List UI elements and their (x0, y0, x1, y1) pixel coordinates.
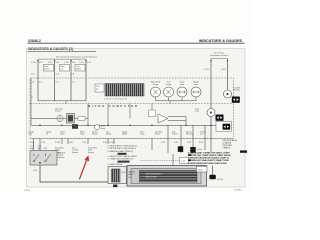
wire size labels top band (31, 62, 227, 76)
bracket right (211, 58, 228, 60)
svg-text:CHARTS: CHARTS (223, 146, 231, 149)
micro computer dashed line (30, 103, 234, 105)
switch label (58, 151, 66, 159)
svg-text:22846-2: 22846-2 (234, 189, 243, 191)
svg-text:Sensor: Sensor (55, 110, 61, 113)
IC block small (95, 84, 104, 92)
meter box bottom dashed (30, 138, 234, 140)
wire W7 right (227, 59, 229, 90)
switch feed labels (30, 146, 48, 151)
section title underline (28, 50, 97, 52)
notes list (108, 145, 138, 166)
svg-text:22846 CONN: 22846 CONN (145, 177, 157, 179)
svg-text:(SRS): (SRS) (122, 134, 127, 136)
connector box C305 (197, 166, 208, 172)
wire W4 (85, 59, 87, 100)
IC block hatched B (122, 84, 144, 97)
schematic frame (27, 49, 245, 187)
ground wire (209, 166, 223, 181)
connector box K3 (75, 65, 85, 72)
door lamp circle (207, 109, 215, 117)
svg-text:Switch: Switch (155, 133, 160, 136)
connector block CA (108, 167, 127, 188)
svg-text:C SENSOR GROUND DIST 22846-3 C: C SENSOR GROUND DIST 22846-3 CHART 22 (188, 157, 229, 160)
connector badge D1 (232, 97, 240, 103)
wire W6 lower (210, 117, 212, 139)
svg-text:0.5L: 0.5L (72, 82, 76, 84)
svg-text:E LAMP DRIVER UNIT 22846 CHART: E LAMP DRIVER UNIT 22846 CHART 22846 (188, 162, 226, 165)
internal bus wire (31, 125, 232, 126)
svg-text:Lamp: Lamp (195, 111, 200, 113)
sensor S2 (94, 125, 105, 130)
svg-text:Lamp: Lamp (140, 134, 145, 136)
wire W6 right (210, 59, 212, 108)
svg-text:Signal: Signal (106, 134, 112, 136)
svg-text:Sensor: Sensor (92, 134, 98, 136)
dashed link above CB (140, 154, 189, 166)
svg-text:meter: meter (60, 133, 65, 136)
legend text block upper (223, 139, 238, 150)
diode D3 (178, 146, 183, 152)
legend rows (188, 150, 247, 164)
svg-text:1.25L: 1.25L (64, 62, 70, 64)
svg-text:A GAUGE ASSY CONNECTOR 22846-1: A GAUGE ASSY CONNECTOR 22846-1 CHART (188, 151, 230, 154)
svg-text:1.25L: 1.25L (48, 62, 54, 64)
red arrow (79, 155, 89, 179)
svg-text:GAUGE ASSEMBLY: GAUGE ASSEMBLY (145, 172, 163, 175)
svg-text:4: SENSOR UNIT GAUGE CHART: 4: SENSOR UNIT GAUGE CHART (108, 155, 138, 158)
svg-text:1.25B: 1.25B (55, 142, 61, 144)
svg-text:1.25B: 1.25B (29, 142, 35, 144)
seat belt lamp label (233, 86, 241, 91)
wire W1 (37, 59, 39, 100)
connector box K1 (44, 65, 54, 72)
resistor R1 (78, 117, 85, 120)
band labels left (32, 82, 76, 99)
svg-text:INDICATORS & GAUGES (3): INDICATORS & GAUGES (3) (28, 47, 73, 51)
combination meter dashed box (30, 78, 234, 139)
svg-text:System: System (88, 151, 94, 154)
diode D4 (190, 147, 202, 153)
wire ground run (33, 165, 127, 182)
seat belt switch SW1 (30, 151, 57, 166)
svg-text:Warning: Warning (233, 90, 240, 92)
svg-text:See Schematic (Powertrain Cont: See Schematic (Powertrain Control System… (56, 55, 97, 58)
resistor R2 (149, 110, 155, 117)
sensor S1 (57, 116, 63, 122)
svg-text:MICRO COMPUTER: MICRO COMPUTER (88, 104, 139, 108)
svg-text:GAUGE: GAUGE (128, 171, 135, 174)
door lamp label (195, 108, 200, 112)
note right: power source (210, 52, 228, 58)
svg-text:Distribution System: Distribution System (210, 54, 228, 57)
stub wires below meter (34, 125, 212, 153)
svg-text:Gauge: Gauge (153, 84, 158, 86)
gauge G1 (151, 87, 161, 97)
svg-text:22846: 22846 (24, 190, 31, 192)
boxed badge X3 (216, 122, 232, 132)
gauge labels row (151, 81, 199, 86)
svg-text:Temp: Temp (101, 128, 105, 130)
svg-text:1.25L: 1.25L (79, 62, 85, 64)
left bus wire (38, 101, 86, 104)
svg-text:22846-2: 22846-2 (28, 39, 41, 43)
svg-text:B METER UNIT CHART 22846-2 CHA: B METER UNIT CHART 22846-2 CHART GAUGE (188, 154, 231, 157)
svg-text:0.5L: 0.5L (56, 82, 60, 84)
svg-text:No.2: No.2 (128, 177, 132, 179)
connector strip CB (127, 166, 207, 187)
svg-text:Gauge: Gauge (166, 84, 171, 86)
svg-text:(Buckle): (Buckle) (58, 157, 65, 159)
svg-text:(G401): (G401) (217, 179, 224, 181)
svg-text:Unit: Unit (200, 133, 204, 136)
component X1 dark (67, 114, 75, 124)
svg-text:meter: meter (194, 83, 199, 86)
svg-text:System: System (72, 151, 78, 154)
column labels above arrow (55, 146, 97, 154)
svg-text:1 2 3 4 5 6 7 8 9 10 11 12 13: 1 2 3 4 5 6 7 8 9 10 11 12 13 (104, 98, 127, 100)
svg-text:D CHIME UNIT 22846 CHART CONNE: D CHIME UNIT 22846 CHART CONNECT 2284 (188, 159, 229, 162)
svg-text:0.5L: 0.5L (39, 82, 43, 84)
svg-text:1.25L: 1.25L (31, 62, 37, 64)
svg-text:ger: ger (96, 89, 99, 91)
svg-text:See Power: See Power (214, 52, 224, 55)
svg-text:1.25L: 1.25L (204, 69, 210, 71)
svg-text:1: GAUGE ASSY CONN (22846-1): 1: GAUGE ASSY CONN (22846-1) (108, 145, 138, 148)
svg-text:6: LAMP DRIVER: 6: LAMP DRIVER (108, 163, 124, 166)
wire micro verticals (31, 78, 152, 125)
svg-text:stat: stat (60, 68, 63, 71)
wire W2 (54, 59, 56, 100)
svg-text:Switch: Switch (172, 133, 177, 136)
svg-text:SW: SW (44, 148, 47, 150)
wire gauge labels below meter (29, 142, 204, 144)
bracket under note (38, 59, 86, 61)
svg-text:INDICATORS & GAUGES: INDICATORS & GAUGES (199, 39, 243, 43)
svg-text:Illumin.: Illumin. (44, 69, 50, 71)
label low fuel sensor (55, 108, 63, 112)
gauge G4 (191, 87, 201, 97)
svg-text:Signal: Signal (76, 69, 82, 71)
gauge G2 (164, 87, 174, 97)
svg-text:Chime: Chime (197, 149, 202, 151)
svg-text:Warning: Warning (186, 134, 193, 136)
gauge G3 (177, 87, 187, 97)
op-amp U1 (158, 114, 186, 125)
svg-text:5: CHIME UNIT CONNECTOR: 5: CHIME UNIT CONNECTOR (108, 159, 134, 161)
header rule (28, 42, 245, 44)
svg-text:0.85L: 0.85L (221, 69, 227, 71)
svg-text:C-06: C-06 (121, 172, 125, 174)
seat belt lamp circle (224, 90, 232, 98)
svg-text:3: WARNING LAMP (22846-3): 3: WARNING LAMP (22846-3) (108, 150, 134, 153)
component X2 (72, 124, 78, 129)
svg-text:Temp: Temp (80, 134, 84, 136)
gauge bus wire (156, 97, 197, 104)
connector badge D2 (216, 115, 224, 121)
svg-text:ASSY: ASSY (128, 173, 134, 176)
page scan tint (27, 49, 245, 187)
svg-text:Fuel: Fuel (29, 134, 33, 136)
sensor wire row (31, 118, 88, 120)
wire W3 (70, 59, 72, 100)
pin labels row (29, 130, 206, 135)
IC block hatched A (105, 84, 121, 97)
connector box K2 (60, 65, 70, 72)
svg-text:meter: meter (180, 83, 185, 86)
